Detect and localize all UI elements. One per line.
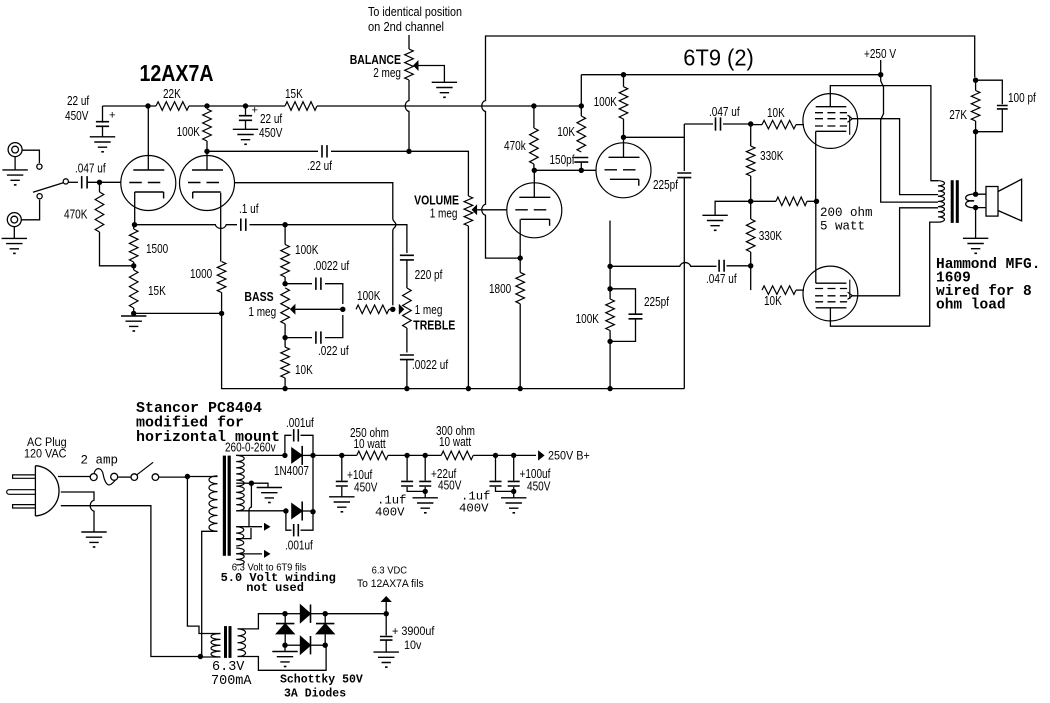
capacitor .001uf bottom [285, 511, 313, 553]
node speaker plus [973, 192, 978, 197]
svg-text:100K: 100K [576, 312, 600, 326]
node 470k top [531, 103, 536, 108]
wire 300ohm to output arrow [473, 454, 536, 456]
ground at 3900uf [374, 652, 399, 668]
svg-text:225pf: 225pf [644, 295, 669, 309]
wire V5 plate to OPT with hop over +250 [830, 86, 938, 181]
svg-text:10K: 10K [557, 125, 575, 139]
ground at 10uf [329, 497, 354, 513]
label to identical position [368, 5, 462, 34]
node 15K bottom [131, 311, 136, 316]
capacitor .047 uf top [684, 105, 750, 131]
title 6T9 (2) [683, 45, 754, 71]
svg-text:400V: 400V [375, 506, 405, 520]
resistor 250 ohm 10 watt [350, 426, 389, 460]
capacitor .047 uf bottom [706, 260, 751, 286]
wire center tap to 6.3V winding [249, 483, 251, 527]
wire V5 screen to UL tap with hop [852, 119, 938, 195]
ground at 22uf [413, 498, 438, 514]
svg-text:330K: 330K [760, 149, 784, 163]
svg-text:470K: 470K [64, 208, 88, 222]
wire cathodyne out to .047 bottom with hop [610, 263, 716, 267]
arrow 6.3VDC up [381, 596, 392, 614]
wire HV top to diode [236, 454, 285, 456]
svg-text:10 watt: 10 watt [354, 437, 387, 451]
ground at 15K [121, 313, 146, 331]
label 6.3 VDC To 12AX7A fils [357, 566, 424, 591]
ground at 330K junction [702, 215, 727, 231]
ground at 100uf [501, 498, 526, 514]
FT primary coil [211, 634, 221, 658]
wire B+ filter line [313, 454, 357, 456]
balance wiper arrow [413, 60, 444, 82]
schottky diode bridge bottom [285, 636, 325, 654]
output transformer primary coil [938, 181, 945, 222]
svg-text:.001uf: .001uf [285, 539, 313, 553]
svg-text:22K: 22K [163, 87, 181, 101]
svg-text:100K: 100K [295, 243, 319, 257]
svg-text:2 meg: 2 meg [373, 66, 401, 80]
svg-text:ohm load: ohm load [936, 298, 1006, 314]
svg-text:To identical position: To identical position [368, 5, 462, 19]
wire 27K bottom to speaker node [975, 132, 977, 195]
wire V4 plate lead [623, 137, 625, 157]
wire V6 screen to UL tap [852, 208, 938, 296]
svg-text:450V: 450V [527, 480, 551, 494]
svg-text:1N4007: 1N4007 [274, 464, 309, 478]
node 150pf bottom [579, 168, 584, 173]
wire diode outputs joined [312, 455, 314, 511]
diode 1N4007 top [274, 446, 313, 478]
capacitor .047 uf input [75, 162, 106, 189]
potentiometer TREBLE 1 meg [403, 288, 456, 333]
wire rail to 470k and 10K tops [534, 105, 581, 107]
wire 6.3V lead arrow [236, 523, 270, 531]
wire node to PT primary top [187, 476, 217, 478]
input jack J2 [7, 213, 21, 227]
wire J2 to switch throw 2 [21, 200, 39, 220]
svg-text:450V: 450V [354, 481, 378, 495]
capacitor 100 pf [976, 80, 1037, 132]
title 12AX7A [140, 60, 214, 86]
triode V4 6T9 second triode [596, 143, 651, 198]
wire V5 cathode [815, 131, 817, 201]
svg-text:BASS: BASS [244, 290, 273, 304]
svg-text:VOLUME: VOLUME [414, 194, 459, 208]
capacitor .1uf 400V first [375, 455, 425, 519]
wire V2 plate to .22uf [207, 150, 318, 152]
potentiometer BASS 1 meg [244, 288, 289, 324]
resistor 330K lower [746, 201, 782, 265]
label 6.3 Volt to 6T9 fils [232, 563, 307, 574]
svg-text:.22 uf: .22 uf [307, 159, 332, 173]
svg-text:1800: 1800 [489, 282, 511, 296]
svg-text:6.3 VDC: 6.3 VDC [372, 566, 408, 577]
resistor 470K input [64, 182, 134, 265]
node primary hot [185, 474, 190, 479]
svg-text:.047 uf: .047 uf [706, 272, 737, 286]
wire 5V lead arrow [236, 550, 270, 558]
node +250V at rail [878, 72, 883, 77]
node rail bass [282, 386, 287, 391]
ground at bridge minus [272, 645, 297, 667]
svg-text:200 ohm: 200 ohm [820, 206, 873, 220]
svg-text:.047 uf: .047 uf [709, 105, 740, 119]
AC plug body [35, 466, 59, 516]
wire switch to transformer [159, 476, 188, 478]
wire plug ground prong [61, 492, 94, 532]
svg-text:225pf: 225pf [653, 178, 678, 192]
node treble wiper [390, 307, 395, 312]
wire 6T9 B+ rail [581, 74, 880, 76]
resistor 15K [285, 87, 317, 110]
svg-text:400V: 400V [459, 502, 489, 516]
wire cathode node down [609, 266, 611, 289]
wire tone top with hop over treble feed [285, 225, 407, 253]
resistor 15K cathode [129, 266, 166, 314]
node V4 plate [621, 135, 626, 140]
capacitor 225pf plate branch [653, 137, 691, 388]
resistor 1000 [190, 262, 226, 314]
svg-text:10 watt: 10 watt [439, 435, 472, 449]
svg-text:120 VAC: 120 VAC [24, 449, 67, 461]
fuse 2 amp [81, 454, 119, 485]
wire B+ rail left segment [103, 105, 157, 107]
PT primary coil [209, 476, 218, 532]
svg-text:450V: 450V [65, 109, 89, 123]
wire V2 grid to treble wiper feed [235, 183, 396, 306]
node rail volume [466, 386, 471, 391]
wire speaker return to ground [975, 208, 977, 239]
node .047 top out [748, 121, 753, 126]
schottky diode bridge top [285, 605, 325, 623]
node 470k bottom V3 plate [532, 168, 537, 173]
PT 6.3V winding [236, 527, 244, 546]
volume wiper arrow [472, 204, 507, 215]
node 100K top [204, 103, 209, 108]
svg-text:.0022 uf: .0022 uf [313, 259, 350, 273]
svg-text:To 12AX7A fils: To 12AX7A fils [357, 578, 424, 590]
svg-text:3A Diodes: 3A Diodes [284, 687, 346, 700]
triode V1 12AX7A-a [121, 156, 176, 211]
wire plate node to PI top [624, 124, 685, 137]
PT HV secondary coil [236, 455, 244, 510]
svg-text:AC Plug: AC Plug [27, 437, 67, 449]
svg-text:22 uf: 22 uf [260, 112, 283, 126]
resistor 100K V4 plate load [594, 75, 628, 138]
svg-text:15K: 15K [285, 87, 303, 101]
node 1500/15K junction [131, 263, 136, 268]
label Stancor [136, 400, 280, 446]
wire to ground rail [609, 341, 611, 388]
capacitor .001uf top [285, 416, 314, 455]
node speaker minus [973, 205, 978, 210]
ground at center tap [257, 488, 282, 504]
wire 15K bottom to 1000 bottom [134, 312, 222, 314]
node diode 1 anode [282, 453, 287, 458]
svg-text:15K: 15K [148, 284, 166, 298]
wire 15K right along rail with hop over NFB line [317, 105, 534, 107]
svg-text:150pf: 150pf [550, 153, 575, 167]
wire V1 cathode [134, 192, 136, 225]
wire FT secondary top to bridge [238, 614, 286, 629]
node 27K top [973, 78, 978, 83]
wire fuse to switch [117, 476, 131, 478]
svg-text:Schottky 50V: Schottky 50V [280, 674, 363, 687]
node bridge plus [323, 611, 328, 616]
node FT primary neutral [198, 654, 203, 659]
svg-text:27K: 27K [949, 108, 967, 122]
PT 5V winding [236, 548, 244, 565]
node V3 cathode [518, 255, 523, 260]
pentode V6 6T9 output bottom [803, 266, 858, 321]
capacitor 150pf [550, 153, 589, 170]
resistor 10K grid stopper bottom [751, 266, 804, 308]
capacitor .22 uf [307, 145, 332, 173]
svg-text:10K: 10K [295, 363, 313, 377]
wire PT primary bottom [202, 531, 218, 656]
svg-text:100K: 100K [177, 125, 201, 139]
switch throw contact 1 [37, 164, 42, 169]
capacitor 22 uf 450V second [239, 105, 283, 141]
ground at J2 [2, 227, 27, 255]
wire plug hot to fuse [58, 476, 90, 478]
wire 22K to 15K [189, 105, 285, 107]
node diode 1 cathode [310, 453, 315, 458]
wire balance top [408, 35, 410, 49]
svg-text:220 pf: 220 pf [415, 268, 443, 282]
wire FT primary bottom [200, 656, 220, 658]
node bass pot bottom [282, 335, 287, 340]
schottky diode bridge right [316, 614, 334, 646]
node diode 2 cathode [310, 509, 315, 514]
treble wiper arrow [399, 304, 405, 315]
resistor 470k grid [504, 106, 538, 170]
node bridge minus [282, 643, 287, 648]
wire 6.3V tap [236, 528, 251, 539]
wire V4 cathode down [609, 221, 611, 267]
NFB wire top [486, 36, 975, 77]
wire FT secondary bottom to bridge [238, 645, 327, 670]
ground at balance wiper [432, 82, 457, 98]
svg-text:330K: 330K [759, 229, 783, 243]
svg-text:+: + [252, 105, 258, 117]
node V4 plate resistor top [621, 72, 626, 77]
HV center tap [236, 481, 268, 488]
wire +250V to OPT center tap [881, 75, 938, 202]
svg-text:22 uf: 22 uf [67, 94, 90, 108]
wire primary hot down to FT [187, 477, 220, 634]
svg-text:470k: 470k [504, 139, 526, 153]
svg-text:.1 uf: .1 uf [239, 202, 259, 216]
resistor 100K tone mid [356, 289, 393, 314]
label +250 V [864, 47, 897, 75]
wire junction to ground [715, 201, 751, 215]
speaker [986, 179, 1022, 221]
arrow 250V B+ [538, 450, 590, 462]
svg-text:6T9 (2): 6T9 (2) [683, 45, 754, 71]
node 27K bottom [973, 129, 978, 134]
svg-text:1 meg: 1 meg [415, 303, 443, 317]
svg-text:.0022 uf: .0022 uf [412, 358, 449, 372]
wire V6 plate to OPT bottom [830, 222, 938, 326]
node 1000 bottom [219, 311, 224, 316]
resistor 330K upper [746, 124, 784, 201]
node rail 1800 [518, 386, 523, 391]
node V2 plate [204, 149, 209, 154]
ground rail of preamp [285, 388, 684, 390]
node rail cathodyne [607, 386, 612, 391]
svg-text:+ 3900uf: + 3900uf [392, 626, 435, 638]
AC plug prongs [7, 475, 36, 508]
svg-text:5 watt: 5 watt [820, 220, 865, 234]
resistor 22K [156, 87, 189, 110]
switch pole contact [63, 179, 68, 184]
NFB vertical with hops [482, 41, 520, 259]
ground at speaker [963, 238, 988, 254]
svg-text:+: + [109, 110, 115, 122]
node 330K junction [748, 199, 753, 204]
svg-text:10v: 10v [404, 640, 422, 652]
svg-text:2 amp: 2 amp [81, 454, 119, 468]
wire bridge output [325, 613, 386, 615]
wire V1 plate to B+ rail [147, 106, 149, 170]
pentode V5 6T9 output top [803, 94, 858, 149]
wire 250ohm to 300ohm [388, 454, 441, 456]
wire HV bottom to diode 2 [236, 510, 286, 512]
svg-text:6.3V: 6.3V [212, 660, 245, 675]
svg-text:450V: 450V [259, 126, 283, 140]
wire bass bottom [284, 324, 286, 338]
capacitor +10uf 450V [336, 455, 378, 496]
svg-text:12AX7A: 12AX7A [140, 60, 214, 86]
wire V2 cathode to 1000 [220, 193, 222, 262]
capacitor +22uf 450V [419, 455, 462, 497]
svg-text:1500: 1500 [146, 242, 168, 256]
capacitor .022 uf bass [285, 315, 349, 358]
wire V3 cathode [519, 219, 521, 258]
resistor 100K V2 plate load [177, 109, 212, 151]
capacitor .1 uf [239, 202, 259, 231]
capacitor 3900uf 10v [380, 614, 435, 652]
diode 1N4007 bottom [292, 502, 313, 521]
resistor 100K cathodyne [576, 289, 615, 342]
ground at 22uf second [233, 129, 258, 145]
node tone stack top [282, 222, 287, 227]
node V1 plate rail [145, 103, 150, 108]
node rail treble [404, 386, 409, 391]
node V4 cathode PI bottom [607, 264, 612, 269]
wire V1 cathode to .1uf with hop over V2 cathode line [135, 225, 238, 229]
node 10K at rail [579, 103, 584, 108]
PT core [223, 456, 231, 556]
node cathodes junction [814, 199, 819, 204]
triode V2 12AX7A-b [180, 156, 235, 211]
svg-text:450V: 450V [438, 479, 462, 493]
node .1uf second [493, 453, 498, 458]
wire plug neutral [61, 506, 201, 657]
label Hammond [936, 257, 1040, 314]
svg-text:260-0-260v: 260-0-260v [225, 441, 276, 455]
wire .1uf to tone stack top [250, 224, 286, 226]
node 100uf [511, 453, 516, 458]
label AC Plug 120 VAC [24, 437, 67, 461]
switch lever [33, 183, 63, 193]
svg-text:.001uf: .001uf [286, 416, 314, 430]
power switch [131, 462, 159, 480]
svg-text:100K: 100K [594, 95, 618, 109]
svg-text:BALANCE: BALANCE [350, 53, 401, 67]
svg-text:on 2nd channel: on 2nd channel [368, 20, 444, 34]
node caps join second [511, 489, 516, 494]
label Schottky 50V 3A Diodes [280, 674, 363, 701]
ground at J1 [2, 157, 27, 186]
node caps join first [423, 489, 428, 494]
node bass wiper line [340, 307, 345, 312]
svg-text:100K: 100K [357, 289, 381, 303]
node .047 bottom out [748, 263, 753, 268]
resistor 1800 [489, 258, 525, 389]
wire J1 to switch throw 1 [22, 150, 39, 163]
svg-text:1000: 1000 [190, 267, 212, 281]
node balance to .22uf line [406, 149, 411, 154]
triode V3 6T9 first triode [507, 183, 562, 238]
svg-text:not used: not used [246, 581, 304, 595]
svg-text:1 meg: 1 meg [430, 207, 458, 221]
schottky diode bridge left [276, 614, 294, 646]
svg-text:.047 uf: .047 uf [75, 162, 106, 176]
wire switch pole to C .047uf [69, 181, 79, 183]
resistor 10K bass bottom [281, 338, 314, 389]
wire V2 plate [206, 151, 208, 170]
node V1 cathode [132, 222, 137, 227]
bass wiper arrow [290, 304, 343, 315]
wire balance bottom with hop over rail [405, 80, 409, 151]
svg-text:TREBLE: TREBLE [413, 319, 455, 333]
capacitor .0022 uf treble bottom [400, 328, 449, 389]
node 100K cathodyne top [607, 286, 612, 291]
node 22uf [423, 453, 428, 458]
svg-text:10K: 10K [767, 106, 785, 120]
resistor 10K V3 [557, 75, 585, 152]
wire secondary to speaker [976, 194, 986, 207]
capacitor +100uf 450V [508, 455, 551, 497]
capacitor 225pf cathodyne [610, 289, 669, 342]
ground at 22uf first [90, 137, 115, 153]
ground at plug [81, 532, 106, 548]
svg-text:1 meg: 1 meg [248, 305, 276, 319]
node 3900uf [384, 611, 389, 616]
node 10uf [339, 453, 344, 458]
potentiometer BALANCE 2 meg [350, 49, 414, 80]
node 22uf second top [243, 103, 248, 108]
capacitor 22 uf 450V first [65, 94, 115, 137]
svg-text:10K: 10K [764, 294, 782, 308]
svg-text:+250 V: +250 V [864, 47, 897, 61]
svg-text:100 pf: 100 pf [1008, 91, 1036, 105]
FT secondary coil [238, 629, 246, 657]
svg-text:.022 uf: .022 uf [318, 344, 349, 358]
wire .22uf to volume [331, 151, 468, 196]
node input grid [97, 180, 102, 185]
node bridge AC2 [323, 643, 328, 648]
wire cap to node and V1 grid [87, 181, 121, 183]
switch throw contact 2 [37, 194, 42, 199]
node 100K cathodyne bottom [607, 339, 612, 344]
label 6.3V 700mA [211, 660, 252, 689]
output transformer secondary winding [966, 194, 976, 208]
wire V6 cathode up [815, 201, 817, 283]
